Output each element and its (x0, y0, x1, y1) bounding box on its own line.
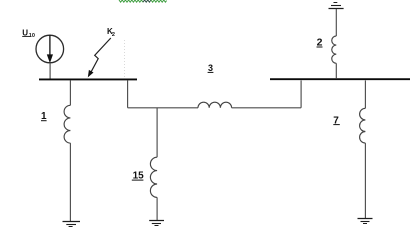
svg-text:10: 10 (29, 33, 35, 39)
svg-text:2: 2 (112, 32, 115, 38)
svg-text:3: 3 (208, 63, 213, 73)
